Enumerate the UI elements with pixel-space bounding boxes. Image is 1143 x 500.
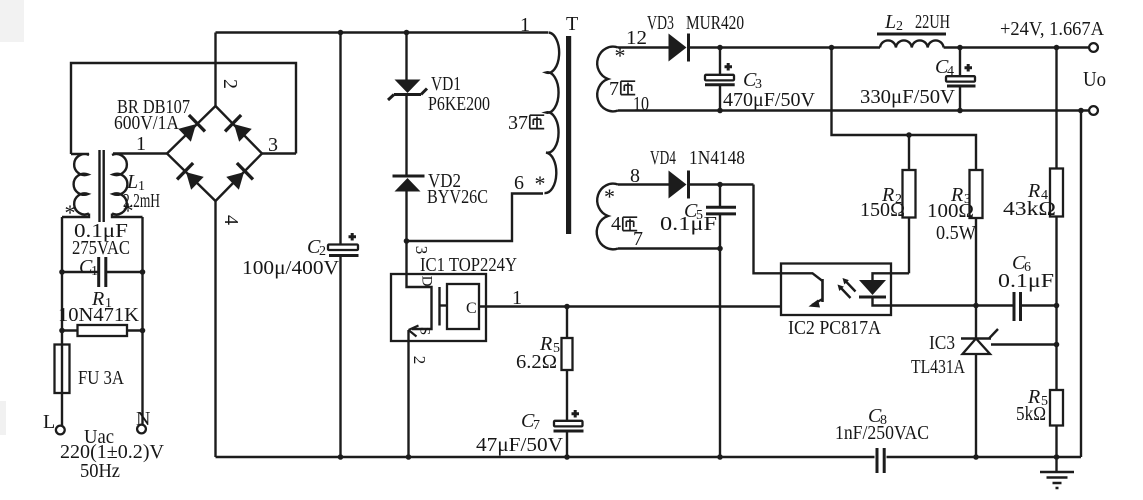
wire: node3 stub (262, 152, 296, 154)
svg-text:4: 4 (947, 64, 954, 79)
transformer secondary 4 turns (597, 184, 618, 250)
wire: secondary2 top (618, 183, 669, 185)
wire: node1 stub (113, 152, 167, 154)
svg-text:4: 4 (220, 215, 242, 225)
bridge diode D-a (177, 115, 205, 144)
svg-text:0.1μF: 0.1μF (998, 270, 1054, 292)
capacitor C1 (62, 271, 143, 273)
node: pre-L2 tap (829, 45, 835, 51)
svg-text:VD4: VD4 (650, 147, 676, 169)
capacitor C6 0.1uF (1014, 292, 1021, 321)
svg-text:TL431A: TL431A (911, 356, 965, 378)
wire: right AC leg (141, 217, 143, 425)
wire: left AC leg (61, 217, 63, 426)
wire: node4 down to ground bus (214, 201, 216, 457)
terminal +24V (1089, 43, 1098, 52)
wire: Uo- down to ground bus (1080, 111, 1082, 458)
svg-text:12: 12 (626, 27, 647, 49)
svg-text:IC1 TOP224Y: IC1 TOP224Y (420, 254, 517, 276)
svg-text:330μF/50V: 330μF/50V (860, 86, 956, 108)
bridge BR DB107 diamond (167, 106, 262, 201)
svg-text:5kΩ: 5kΩ (1016, 403, 1046, 425)
IC1 control inner box (447, 284, 479, 329)
svg-text:7: 7 (533, 418, 540, 433)
capacitor C7 47uF/50V (554, 421, 583, 427)
capacitor C2 100u/400V (339, 33, 341, 458)
node: control junction (564, 304, 570, 310)
svg-text:1N4148: 1N4148 (689, 147, 745, 169)
svg-text:6.2Ω: 6.2Ω (516, 351, 557, 373)
wire: feedback tap down (832, 48, 977, 171)
IC1 pin1 control wire (479, 305, 781, 307)
svg-text:L: L (884, 11, 896, 33)
shunt regulator IC3 TL431A (975, 306, 977, 339)
svg-text:2: 2 (896, 19, 903, 34)
svg-text:2: 2 (410, 356, 429, 365)
terminal L (56, 426, 65, 435)
wire: collector riser (754, 185, 782, 274)
choke L1 left winding (62, 154, 89, 217)
IC2 phototransistor (781, 273, 823, 281)
transformer secondary 7 turns (597, 47, 618, 112)
svg-text:S: S (417, 327, 433, 335)
svg-text:7: 7 (633, 228, 643, 250)
resistor R4 43kohm (1055, 48, 1057, 169)
terminal Uo- (1089, 106, 1098, 115)
wire: secondary1 top (618, 46, 669, 48)
diode VD3 MUR420 (669, 34, 687, 62)
IC1 internal mosfet (407, 274, 432, 329)
svg-text:470μF/50V: 470μF/50V (723, 89, 816, 111)
resistor R5 5kohm (1055, 306, 1057, 391)
svg-text:IC3: IC3 (929, 332, 955, 354)
wire: sec2 return to ground bus (719, 249, 721, 458)
resistor R2 150ohm (908, 135, 910, 170)
wire: primary pin6 return (407, 194, 544, 242)
svg-text:4: 4 (611, 213, 621, 235)
svg-text:47μF/50V: 47μF/50V (476, 434, 564, 456)
svg-text:7: 7 (609, 78, 619, 100)
svg-text:100Ω: 100Ω (927, 200, 974, 222)
svg-text:IC2 PC817A: IC2 PC817A (788, 317, 881, 339)
bridge diode D-d (225, 163, 253, 192)
wire: EMI loop top (71, 63, 296, 154)
svg-text:150Ω: 150Ω (860, 199, 905, 221)
wire: secondary 0V rail (618, 109, 1090, 111)
svg-text:6: 6 (514, 172, 524, 194)
svg-text:1: 1 (512, 287, 522, 309)
choke L1 right winding (112, 154, 143, 217)
capacitor C5 0.1uF (717, 182, 723, 188)
svg-text:37: 37 (508, 112, 528, 134)
svg-text:43kΩ: 43kΩ (1003, 198, 1056, 220)
svg-text:N: N (136, 408, 150, 430)
svg-text:0.5W: 0.5W (936, 222, 976, 244)
wire: top primary bus (216, 31, 549, 33)
svg-text:0.1μF: 0.1μF (660, 213, 717, 235)
svg-text:P6KE200: P6KE200 (428, 93, 490, 115)
transformer T primary 37 turns (545, 33, 560, 194)
svg-text:*: * (535, 171, 546, 196)
ground bus primary-to-C8 (216, 456, 875, 458)
wire: TL431 ref to divider (991, 343, 1057, 345)
terminal N (137, 425, 146, 434)
node: R4 tap (1054, 45, 1060, 51)
resistor R5 6.2ohm (566, 307, 568, 339)
capacitor C8 1nF/250VAC (877, 448, 884, 473)
svg-text:1: 1 (520, 14, 530, 36)
svg-text:100μ/400V: 100μ/400V (242, 257, 340, 279)
svg-text:1: 1 (91, 264, 98, 279)
transformer core (566, 36, 571, 234)
capacitor C4 330uF/50V (957, 45, 963, 51)
svg-text:22UH: 22UH (915, 11, 950, 33)
optocoupler IC2 PC817A box (781, 264, 891, 316)
svg-text:+24V, 1.667A: +24V, 1.667A (1000, 18, 1105, 40)
svg-text:600V/1A: 600V/1A (114, 112, 179, 134)
ground symbol (1055, 457, 1057, 471)
svg-text:T: T (566, 13, 578, 35)
svg-text:BYV26C: BYV26C (427, 186, 488, 208)
diode VD2 BYV26C (393, 175, 425, 178)
choke L1 core (100, 150, 104, 222)
svg-text:Uo: Uo (1083, 67, 1106, 91)
scan artifact left edge (0, 401, 6, 435)
svg-text:1nF/250VAC: 1nF/250VAC (835, 422, 929, 444)
svg-text:50Hz: 50Hz (80, 460, 120, 482)
scan artifact top-left (0, 0, 24, 42)
diode VD4 1N4148 (669, 171, 687, 199)
varistor R1 (62, 329, 143, 331)
node: TL431 cathode junction (973, 303, 979, 309)
fuse FU 3A (55, 345, 70, 394)
svg-text:*: * (604, 184, 615, 209)
svg-text:10N471K: 10N471K (58, 304, 140, 326)
svg-text:MUR420: MUR420 (686, 12, 744, 34)
svg-text:3: 3 (268, 134, 278, 156)
IC1 TOP224Y outer box (391, 274, 486, 341)
wire: bridge node2 riser (214, 33, 216, 107)
IC1 pin3 lead (405, 241, 407, 274)
ground bus C8-to-right (887, 456, 1082, 458)
svg-text:C: C (466, 300, 477, 317)
bridge diode D-c (177, 163, 205, 192)
resistor R3 100ohm (970, 170, 983, 218)
bridge diode D-b (225, 115, 253, 144)
svg-text:L: L (43, 411, 55, 433)
node: drain junction (404, 238, 410, 244)
wire: secondary2 bottom (618, 247, 720, 249)
IC1 pin2 lead (407, 341, 409, 457)
svg-text:3: 3 (412, 246, 431, 255)
IC2 light arrows (841, 281, 856, 298)
IC2 LED (873, 273, 910, 280)
svg-text:2: 2 (219, 79, 241, 89)
svg-text:VD3: VD3 (647, 12, 674, 34)
svg-text:1: 1 (136, 133, 146, 155)
svg-text:D: D (419, 276, 435, 287)
inductor L2 22UH (880, 40, 944, 47)
svg-text:FU 3A: FU 3A (78, 367, 124, 389)
TVS VD1 P6KE200 (405, 33, 407, 175)
capacitor C3 470uF/50V (717, 45, 723, 51)
svg-text:VD1: VD1 (431, 73, 461, 95)
